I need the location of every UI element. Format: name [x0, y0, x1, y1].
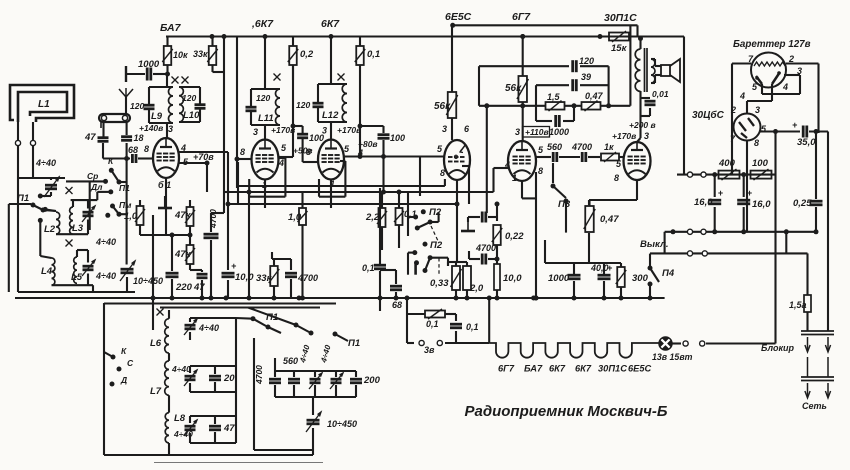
- svg-text:16,0: 16,0: [752, 199, 771, 210]
- svg-text:560: 560: [547, 142, 562, 152]
- svg-text:100: 100: [752, 158, 769, 169]
- svg-text:47к: 47к: [174, 210, 192, 221]
- svg-text:30П1С: 30П1С: [604, 12, 637, 24]
- svg-text:10,0: 10,0: [235, 272, 254, 283]
- svg-text:4: 4: [739, 91, 745, 101]
- svg-text:0,1: 0,1: [362, 263, 375, 273]
- svg-text:56к: 56к: [505, 83, 522, 94]
- svg-text:Бареттер 127в: Бареттер 127в: [733, 39, 811, 50]
- svg-text:+: +: [792, 120, 798, 130]
- svg-text:8: 8: [440, 168, 445, 178]
- svg-text:Дл: Дл: [90, 182, 103, 192]
- svg-text:6К7: 6К7: [549, 364, 566, 374]
- svg-text:120: 120: [256, 93, 270, 103]
- svg-text:30П1С: 30П1С: [598, 364, 627, 374]
- svg-text:200: 200: [363, 375, 381, 386]
- svg-text:L9: L9: [151, 111, 163, 122]
- svg-text:1: 1: [512, 173, 517, 183]
- svg-text:4700: 4700: [297, 273, 318, 283]
- svg-text:220: 220: [175, 282, 193, 293]
- svg-text:БА7: БА7: [160, 22, 182, 34]
- svg-text:120: 120: [579, 56, 594, 66]
- svg-text:1,0: 1,0: [288, 212, 302, 223]
- svg-text:300: 300: [632, 273, 649, 284]
- svg-text:47: 47: [223, 423, 235, 434]
- svg-text:10к: 10к: [173, 50, 188, 60]
- svg-text:40,0: 40,0: [590, 263, 609, 273]
- svg-text:8: 8: [754, 138, 759, 148]
- svg-text:+170в: +170в: [612, 131, 636, 141]
- svg-text:3: 3: [253, 127, 258, 137]
- svg-text:+: +: [607, 263, 613, 273]
- svg-text:68: 68: [128, 145, 138, 155]
- svg-text:400: 400: [718, 158, 736, 169]
- svg-text:L2: L2: [44, 224, 56, 235]
- svg-text:L3: L3: [72, 223, 84, 234]
- svg-text:100: 100: [390, 133, 405, 143]
- svg-text:0,47: 0,47: [600, 214, 619, 225]
- svg-text:6Е5С: 6Е5С: [445, 11, 472, 23]
- svg-text:К: К: [121, 346, 127, 356]
- svg-text:4: 4: [782, 82, 788, 92]
- svg-text:8: 8: [614, 173, 619, 183]
- svg-text:L4: L4: [41, 266, 53, 277]
- svg-text:+: +: [231, 261, 237, 271]
- svg-text:+: +: [747, 188, 753, 198]
- svg-text:+200 в: +200 в: [629, 120, 656, 130]
- svg-text:2,2: 2,2: [365, 212, 380, 223]
- svg-text:100: 100: [309, 133, 324, 143]
- svg-text:Блокир: Блокир: [761, 343, 795, 353]
- svg-text:0,01: 0,01: [652, 89, 669, 99]
- svg-text:1000: 1000: [138, 59, 160, 70]
- svg-text:П4: П4: [662, 268, 675, 279]
- svg-text:47: 47: [84, 132, 96, 143]
- svg-text:120: 120: [182, 93, 196, 103]
- svg-text:4÷40: 4÷40: [171, 364, 191, 374]
- svg-text:3: 3: [644, 131, 649, 141]
- svg-text:L6: L6: [150, 338, 162, 349]
- svg-text:П1: П1: [119, 183, 130, 193]
- svg-text:3: 3: [515, 127, 520, 137]
- svg-text:С: С: [127, 358, 134, 368]
- svg-text:4÷40: 4÷40: [35, 158, 56, 168]
- svg-text:Радиоприемник Москвич-Б: Радиоприемник Москвич-Б: [464, 403, 667, 420]
- svg-text:L5: L5: [71, 272, 83, 283]
- svg-text:560: 560: [283, 356, 298, 366]
- svg-text:б 1: б 1: [158, 180, 171, 190]
- svg-text:3: 3: [168, 124, 173, 134]
- svg-text:1000: 1000: [549, 127, 569, 137]
- svg-text:П2: П2: [429, 207, 442, 218]
- svg-text:1к: 1к: [604, 142, 614, 152]
- svg-text:L8: L8: [174, 413, 186, 424]
- svg-text:4700: 4700: [475, 243, 496, 253]
- svg-text:47: 47: [193, 282, 205, 293]
- svg-text:56к: 56к: [434, 101, 451, 112]
- svg-text:120: 120: [130, 101, 144, 111]
- svg-text:0,47: 0,47: [585, 91, 604, 101]
- svg-text:6К7: 6К7: [321, 18, 340, 30]
- svg-text:Ср: Ср: [87, 171, 98, 181]
- svg-text:0,22: 0,22: [505, 231, 524, 242]
- svg-text:0,1: 0,1: [367, 49, 380, 60]
- svg-text:4700: 4700: [571, 142, 592, 152]
- svg-text:4÷40: 4÷40: [95, 271, 116, 281]
- svg-text:1,0: 1,0: [124, 211, 138, 222]
- svg-text:БА7: БА7: [524, 364, 543, 374]
- svg-text:6Г7: 6Г7: [512, 11, 531, 23]
- svg-text:П2: П2: [430, 240, 443, 251]
- svg-text:4÷40: 4÷40: [95, 237, 116, 247]
- svg-text:8: 8: [144, 144, 149, 154]
- svg-text:1000: 1000: [548, 273, 570, 284]
- svg-text:П1: П1: [348, 338, 360, 349]
- svg-text:1,5: 1,5: [547, 92, 561, 102]
- svg-text:0,1: 0,1: [426, 319, 439, 329]
- svg-text:2,0: 2,0: [469, 283, 484, 294]
- svg-text:20: 20: [223, 373, 235, 384]
- svg-text:,6К7: ,6К7: [251, 18, 274, 30]
- svg-text:6К7: 6К7: [575, 364, 592, 374]
- svg-text:4700: 4700: [208, 209, 218, 229]
- svg-text:18: 18: [134, 133, 144, 143]
- svg-text:+50в: +50в: [293, 146, 313, 156]
- svg-text:Сеть: Сеть: [802, 401, 827, 411]
- svg-text:Д: Д: [120, 375, 127, 385]
- svg-text:Пм: Пм: [119, 200, 132, 210]
- svg-text:К: К: [108, 156, 114, 166]
- svg-text:33к: 33к: [256, 273, 273, 284]
- svg-text:+70в: +70в: [193, 152, 214, 162]
- svg-text:0,25: 0,25: [793, 198, 812, 209]
- svg-text:8: 8: [538, 166, 543, 176]
- svg-text:68: 68: [392, 300, 402, 310]
- svg-text:39: 39: [581, 72, 591, 82]
- svg-text:35,0: 35,0: [797, 137, 816, 148]
- svg-text:6Г7: 6Г7: [498, 364, 515, 374]
- svg-text:6Е5С: 6Е5С: [628, 364, 652, 374]
- svg-text:4: 4: [278, 158, 284, 168]
- svg-text:L12: L12: [322, 110, 339, 121]
- svg-text:13в 15вm: 13в 15вm: [652, 352, 693, 362]
- svg-text:16,0: 16,0: [694, 197, 713, 208]
- svg-text:L10: L10: [183, 110, 200, 121]
- svg-text:3: 3: [755, 105, 760, 115]
- svg-text:10,0: 10,0: [503, 273, 522, 284]
- svg-text:3: 3: [442, 124, 447, 134]
- svg-text:8: 8: [240, 147, 245, 157]
- svg-text:+140в: +140в: [139, 123, 163, 133]
- svg-text:10÷450: 10÷450: [133, 276, 163, 286]
- svg-text:33к: 33к: [193, 49, 208, 59]
- svg-text:4700: 4700: [254, 365, 264, 385]
- svg-text:10÷450: 10÷450: [327, 419, 357, 429]
- svg-text:L1: L1: [38, 99, 50, 110]
- svg-text:15к: 15к: [611, 43, 628, 54]
- svg-text:L7: L7: [150, 386, 162, 397]
- svg-text:120: 120: [296, 100, 310, 110]
- svg-text:0,33: 0,33: [430, 278, 449, 289]
- svg-text:0,2: 0,2: [300, 49, 314, 60]
- svg-text:+110в: +110в: [525, 127, 549, 137]
- svg-text:47к: 47к: [174, 249, 192, 260]
- svg-text:П3: П3: [558, 199, 571, 210]
- svg-text:4÷40: 4÷40: [198, 323, 219, 333]
- svg-text:3в: 3в: [424, 345, 435, 355]
- svg-text:L11: L11: [258, 113, 274, 124]
- svg-text:0,1: 0,1: [466, 322, 479, 332]
- svg-text:+: +: [718, 188, 724, 198]
- svg-text:30ЦбС: 30ЦбС: [692, 109, 725, 121]
